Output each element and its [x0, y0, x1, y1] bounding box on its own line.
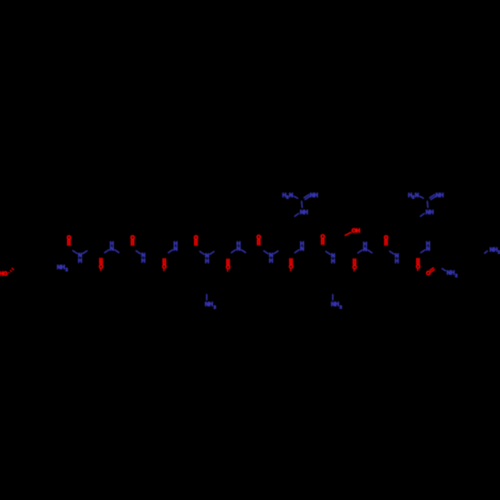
amide N6-H (H above) — [231, 242, 245, 253]
svg-text:H: H — [78, 258, 82, 264]
carbonyl O12 (C=O down) — [416, 259, 421, 271]
carbonyl O10 (C=O down) — [352, 259, 357, 271]
svg-text:H: H — [205, 259, 209, 265]
svg-text:H: H — [110, 242, 114, 248]
svg-text:H: H — [395, 259, 399, 265]
carbonyl O11 (C=O up) — [384, 235, 389, 245]
arginine-1 guanidinium delta NH — [295, 210, 308, 216]
C-terminal amide NH2 — [442, 269, 458, 278]
amide N3-H (H below) — [136, 251, 145, 265]
svg-text:NH: NH — [57, 265, 65, 271]
svg-text:H: H — [236, 242, 240, 248]
amide N1-H (H below) — [73, 251, 87, 265]
svg-text:NH: NH — [490, 247, 498, 253]
carbonyl O7 (C=O up) — [257, 235, 262, 245]
arginine-1 guanidinium C=NH imine — [304, 193, 318, 200]
svg-text:H: H — [331, 259, 335, 265]
serine side-chain OH — [345, 228, 360, 235]
svg-text:NH: NH — [436, 193, 444, 199]
svg-text:H: H — [363, 242, 367, 248]
svg-text:NH: NH — [300, 210, 308, 216]
carbonyl O2 (C=O down) — [99, 259, 104, 271]
svg-text:NH: NH — [426, 210, 434, 216]
arginine-2 guanidinium C=NH imine — [430, 193, 444, 200]
carbonyl O6 (C=O down) — [226, 259, 231, 271]
C-terminal amide C=O — [426, 268, 434, 277]
svg-text:O: O — [226, 265, 231, 271]
svg-text:N: N — [415, 193, 419, 199]
arginine-2 guanidinium delta NH — [420, 210, 433, 216]
carbonyl O5 (C=O up) — [194, 236, 199, 246]
svg-text:O: O — [162, 265, 167, 271]
svg-text:NH: NH — [447, 271, 455, 277]
svg-text:NH: NH — [310, 193, 318, 199]
svg-text:HO: HO — [0, 271, 8, 277]
carbonyl O9 (C=O up) — [321, 235, 326, 245]
amide N8-H (H above) — [295, 242, 304, 253]
arginine-1 guanidinium H2N — [282, 193, 293, 200]
svg-text:NH: NH — [205, 302, 213, 308]
svg-text:O: O — [426, 271, 431, 277]
svg-text:H: H — [269, 259, 273, 265]
lysine-2 side-chain NH2 — [331, 295, 343, 310]
tyrosine phenol HO with hash-wedge — [0, 268, 14, 277]
arginine-2 guanidinium bond C-NH — [426, 201, 429, 207]
amide N7-H (H below) — [264, 251, 278, 265]
lysine-1 side-chain NH2 — [205, 295, 217, 310]
svg-text:O: O — [352, 265, 357, 271]
amide N2-H (H above) — [105, 242, 119, 253]
svg-text:O: O — [99, 264, 104, 270]
amide N10-H (H above) — [358, 242, 372, 253]
svg-text:O: O — [289, 265, 294, 271]
arginine-1 guanidinium bond H2N-C — [294, 196, 298, 198]
N-terminal amine NH2 — [57, 265, 69, 272]
svg-text:O: O — [416, 264, 421, 270]
svg-text:H: H — [141, 259, 145, 265]
amide N12-H (H above) — [421, 242, 430, 253]
carbonyl O8 (C=O down) — [289, 259, 294, 271]
carbonyl O1 (C=O up) — [67, 236, 72, 246]
arginine-2 guanidinium bond H2N-C — [420, 196, 424, 198]
amide N4-H (H above) — [168, 242, 177, 253]
amide N5-H (H below) — [200, 251, 214, 265]
arginine-1 guanidinium bond C-NH — [301, 201, 304, 207]
arginine-2 guanidinium H2N — [408, 193, 419, 200]
svg-text:H: H — [173, 242, 177, 248]
svg-text:NH: NH — [331, 302, 339, 308]
lysine-3 side-chain NH2 right edge — [485, 247, 500, 254]
svg-text:N: N — [289, 193, 293, 199]
amide N9-H (H below) — [326, 251, 335, 265]
carbonyl O4 (C=O down) — [162, 259, 167, 271]
amide N11-H (H below) — [390, 251, 399, 265]
svg-text:H: H — [426, 242, 430, 248]
svg-text:H: H — [300, 242, 304, 248]
svg-text:OH: OH — [352, 228, 360, 234]
carbonyl O3 (C=O up) — [130, 236, 135, 246]
